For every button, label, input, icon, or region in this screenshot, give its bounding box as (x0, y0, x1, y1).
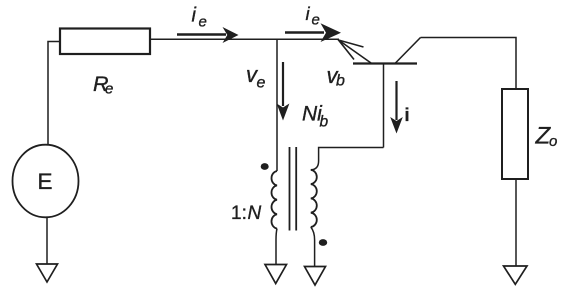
svg-text:E: E (38, 169, 53, 194)
label Nib (302, 102, 329, 130)
node ve : vertical wire down to transformer (276, 39, 278, 171)
wire secondary bottom to ground (311, 227, 315, 267)
svg-text:b: b (336, 73, 345, 90)
wire source bottom to ground (46, 217, 48, 264)
label ie (left) (192, 5, 207, 31)
wire Zo bottom to ground (515, 179, 517, 266)
svg-text:b: b (320, 114, 329, 131)
wire collector to Zo top (421, 38, 517, 90)
current arrow i (390, 81, 403, 134)
wire primary bottom to ground (276, 229, 277, 264)
transistor Q1 : base bar (353, 62, 417, 64)
label Re (93, 72, 113, 98)
wire top (resistor to emitter node) (150, 38, 339, 40)
wire resistor-left to source top (48, 42, 60, 146)
transistor Q1 : emitter arrowhead strokes (339, 40, 364, 60)
current arrow ie (right) (285, 23, 341, 42)
svg-text:i: i (192, 5, 197, 27)
transformer T1 : secondary winding (right coil) (311, 170, 317, 227)
label ie (right) (306, 3, 320, 29)
label Zo (535, 123, 558, 151)
resistor Re (60, 29, 150, 55)
ground (under secondary) (305, 267, 326, 286)
ground (under Zo) (504, 266, 528, 284)
ground (under primary) (265, 265, 287, 284)
transistor Q1 : emitter line (339, 40, 372, 63)
svg-text:e: e (312, 12, 320, 29)
wire base lead down (383, 64, 385, 148)
label ve (246, 62, 266, 92)
current arrow ie (left) (177, 27, 239, 43)
svg-text:e: e (257, 75, 266, 92)
label vb (327, 63, 346, 90)
svg-text:e: e (199, 14, 207, 31)
impedance Zo (502, 89, 528, 179)
transformer T1 : core lines (290, 147, 297, 231)
svg-text:o: o (549, 133, 557, 150)
wire base to transformer secondary (311, 148, 384, 170)
svg-text:N: N (248, 203, 262, 224)
transformer T1 : polarity dot (secondary) (319, 239, 327, 246)
source E (13, 145, 79, 218)
voltage arrow ve (277, 62, 290, 121)
transformer T1 : primary winding (left coil) (271, 171, 277, 229)
transformer T1 : polarity dot (primary) (261, 163, 269, 170)
label 1:N (231, 203, 262, 224)
ground (under E) (37, 264, 58, 282)
transistor Q1 : collector line (395, 38, 421, 65)
svg-text:e: e (105, 81, 113, 98)
svg-text:i: i (405, 105, 410, 125)
svg-text:1:: 1: (231, 203, 247, 224)
